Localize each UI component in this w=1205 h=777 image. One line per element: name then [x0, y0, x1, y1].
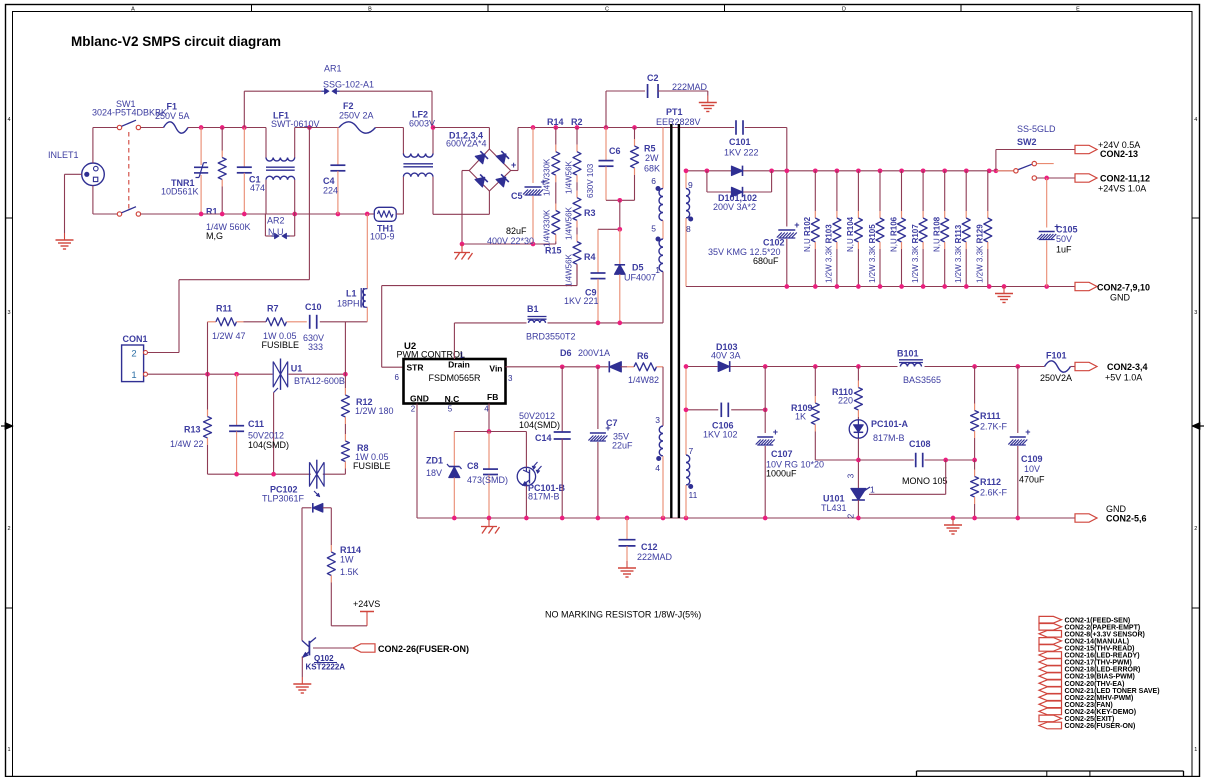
svg-text:CON2-17(THV-PWM): CON2-17(THV-PWM): [1065, 660, 1132, 667]
svg-text:N,U R108: N,U R108: [933, 216, 942, 252]
junction dot R111 R112: [972, 458, 977, 463]
svg-text:C5: C5: [511, 191, 523, 201]
resistor R6: [621, 351, 664, 385]
svg-text:222MAD: 222MAD: [637, 552, 673, 562]
resistor R2: [565, 117, 583, 194]
bridge rectifier D1,2,3,4: [446, 131, 516, 192]
svg-text:C6: C6: [609, 146, 621, 156]
connector CON2-5,6: [1075, 504, 1147, 524]
winding PT1 secondary 9-8: [686, 171, 693, 287]
triac U1: [273, 359, 345, 393]
resistor R13: [170, 374, 212, 474]
svg-text:6: 6: [395, 373, 400, 382]
svg-text:1/2W 3.3K R105: 1/2W 3.3K R105: [868, 224, 877, 283]
resistor R109: [791, 367, 858, 461]
svg-text:680uF: 680uF: [753, 256, 779, 266]
wire primary ground rail: [417, 517, 1075, 519]
fuse F101: [1040, 351, 1075, 384]
resistor R15 lower: [543, 193, 562, 256]
svg-text:3: 3: [7, 310, 10, 316]
svg-text:250V2A: 250V2A: [1040, 373, 1072, 383]
connector CON2-1(FEED-SEN): [1039, 616, 1130, 624]
svg-text:C107: C107: [771, 449, 793, 459]
svg-text:817M-B: 817M-B: [873, 433, 905, 443]
svg-text:40V 3A: 40V 3A: [711, 351, 741, 361]
svg-text:N,U: N,U: [268, 227, 284, 237]
svg-text:C14: C14: [535, 433, 552, 443]
connector CON2-17(THV-PWM): [1039, 659, 1132, 667]
svg-text:104(SMD): 104(SMD): [519, 420, 560, 430]
svg-text:U1: U1: [291, 364, 303, 374]
svg-text:2: 2: [1194, 526, 1197, 532]
svg-text:N,U R102: N,U R102: [803, 216, 812, 252]
junction dot LF2 right: [431, 125, 436, 130]
svg-text:Drain: Drain: [448, 360, 470, 370]
svg-text:CON2-18(LED-ERROR): CON2-18(LED-ERROR): [1065, 667, 1141, 674]
capacitor C11: [229, 374, 289, 474]
svg-text:CON2-21(LED TONER SAVE): CON2-21(LED TONER SAVE): [1065, 688, 1160, 695]
filter LF2: [403, 110, 435, 215]
wire R114 to 24VS: [331, 625, 367, 627]
svg-text:10D-9: 10D-9: [370, 232, 395, 242]
svg-text:200V 3A*2: 200V 3A*2: [713, 202, 756, 212]
svg-text:1/4W330K: 1/4W330K: [543, 209, 552, 247]
svg-text:CON2-14(MANUAL): CON2-14(MANUAL): [1065, 639, 1130, 646]
wire top rail to bridge: [433, 128, 489, 150]
svg-text:1KV 102: 1KV 102: [703, 430, 738, 440]
connector CON2-25(EXIT): [1039, 715, 1114, 723]
capacitor C2: [606, 73, 708, 128]
wire inlet top: [92, 128, 94, 164]
svg-text:200V1A: 200V1A: [578, 348, 610, 358]
svg-text:R1: R1: [206, 207, 218, 217]
resistor R113: [954, 171, 970, 287]
connector CON2-21(LED TONER SAVE): [1039, 687, 1160, 695]
svg-text:N,U R106: N,U R106: [889, 216, 898, 252]
winding PT1 aux 3-4: [655, 415, 663, 518]
svg-text:50V: 50V: [1056, 234, 1072, 244]
svg-text:1/2W 3.3K R103: 1/2W 3.3K R103: [825, 224, 834, 283]
svg-text:1.5K: 1.5K: [340, 567, 359, 577]
ground chassis at U2: [481, 518, 500, 534]
svg-text:CON2-24(KEY-DEMO): CON2-24(KEY-DEMO): [1065, 709, 1137, 716]
ground earth at C12: [618, 561, 636, 577]
svg-text:GND: GND: [410, 394, 429, 404]
svg-text:CON1: CON1: [123, 334, 148, 344]
junction dots 24V gnd rail: [784, 284, 1049, 289]
svg-text:N.C: N.C: [445, 394, 460, 404]
power +24VS: [353, 599, 380, 626]
svg-text:10V: 10V: [1024, 464, 1040, 474]
junction dots pin1 wire: [205, 372, 348, 377]
svg-text:SS-5GLD: SS-5GLD: [1017, 124, 1056, 134]
svg-text:UF4007: UF4007: [624, 273, 656, 283]
svg-text:PT1: PT1: [666, 107, 683, 117]
resistor R1: [206, 128, 251, 242]
opto triac PC102: [262, 460, 324, 504]
capacitor C106: [703, 403, 738, 440]
wire L1 node down: [344, 322, 346, 374]
transformer PT1: [656, 107, 701, 518]
svg-text:CON2-26(FUSER-ON): CON2-26(FUSER-ON): [1065, 723, 1136, 730]
svg-text:1KV 222: 1KV 222: [724, 148, 759, 158]
junction dots 24V rail: [684, 168, 999, 173]
fuse F1: [141, 102, 190, 134]
wire Q102 collector: [309, 642, 353, 648]
svg-text:104(SMD): 104(SMD): [248, 440, 289, 450]
svg-text:1K: 1K: [795, 412, 806, 422]
connector CON2-26: [353, 644, 469, 654]
svg-text:R5: R5: [644, 144, 656, 154]
svg-text:1/4W56K: 1/4W56K: [565, 160, 574, 194]
note no marking resistor: [545, 610, 701, 620]
svg-text:474: 474: [250, 183, 265, 193]
svg-text:4: 4: [7, 117, 10, 123]
winding PT1 primary 6-5: [651, 128, 663, 221]
ground earth at C2: [699, 96, 717, 112]
ic U2 FSDM0565R: [395, 341, 513, 414]
junction dots 5V rail: [684, 364, 1021, 369]
connector CON2-22(MHV-PWM): [1039, 694, 1133, 702]
svg-text:CON2-11,12: CON2-11,12: [1100, 174, 1150, 184]
switch SW1: [92, 99, 167, 216]
junction dots negative rail: [460, 242, 536, 247]
wire CON2-13 feed: [996, 150, 1075, 171]
winding PT1 secondary 7-11: [686, 367, 698, 519]
arrester AR2: [265, 214, 294, 239]
connector CON2-23(FAN): [1039, 701, 1113, 709]
zener ZD1: [426, 432, 462, 519]
svg-text:STR: STR: [407, 363, 424, 373]
junction dots B1 line: [596, 321, 623, 326]
svg-text:82uF: 82uF: [506, 226, 527, 236]
resistor R107: [911, 171, 927, 287]
svg-text:SSG-102-A1: SSG-102-A1: [323, 80, 374, 90]
wire inlet to ground: [65, 174, 82, 233]
svg-text:TLP3061F: TLP3061F: [262, 494, 305, 504]
connector CON2-18(LED-ERROR): [1039, 666, 1140, 674]
svg-text:+: +: [511, 160, 516, 170]
svg-text:AR2: AR2: [267, 216, 285, 226]
svg-text:2: 2: [131, 348, 136, 359]
svg-text:BTA12-600B: BTA12-600B: [294, 376, 345, 386]
connector CON2-26(FUSER-ON): [1039, 722, 1135, 730]
svg-text:4: 4: [1194, 117, 1197, 123]
varistor TNR1: [161, 128, 208, 215]
svg-text:U101: U101: [823, 494, 845, 504]
svg-text:473(SMD): 473(SMD): [467, 475, 508, 485]
svg-text:68K: 68K: [644, 164, 660, 174]
bead B101: [897, 349, 941, 386]
capacitor C105: [1037, 178, 1077, 287]
svg-text:222MAD: 222MAD: [672, 82, 708, 92]
svg-text:CON2-15(THV-READ): CON2-15(THV-READ): [1065, 646, 1135, 653]
wire led left to Q102: [301, 508, 303, 641]
wire feedback node: [856, 438, 861, 488]
svg-text:+: +: [1025, 427, 1030, 437]
capacitor C8: [467, 432, 508, 519]
svg-text:2: 2: [846, 513, 855, 518]
svg-text:1/4W56K: 1/4W56K: [565, 253, 574, 287]
wire inlet bottom: [92, 186, 94, 214]
svg-text:R11: R11: [216, 304, 232, 314]
diode D102: [707, 171, 772, 197]
svg-text:R111: R111: [980, 411, 1001, 421]
svg-text:6: 6: [651, 176, 656, 186]
diode D103: [711, 342, 741, 372]
svg-text:CON2-23(FAN): CON2-23(FAN): [1065, 702, 1113, 709]
capacitor C7: [588, 367, 633, 518]
wire PC101-B leads: [525, 432, 527, 519]
svg-text:1: 1: [870, 485, 875, 495]
wire snubber node: [598, 200, 622, 231]
svg-text:630V 103: 630V 103: [586, 163, 595, 198]
svg-text:F2: F2: [343, 101, 354, 111]
wire CON1 pin1 node: [148, 373, 346, 375]
capacitor C5: [487, 128, 546, 247]
junction dots bottom rail left: [199, 212, 370, 217]
svg-text:C108: C108: [909, 439, 931, 449]
svg-text:AR1: AR1: [324, 64, 342, 74]
svg-text:1: 1: [655, 265, 660, 275]
wire U1 gate: [273, 393, 275, 475]
svg-text:817M-B: 817M-B: [528, 492, 560, 502]
svg-text:L1: L1: [346, 289, 357, 299]
svg-text:250V 2A: 250V 2A: [339, 111, 374, 121]
svg-text:R2: R2: [571, 117, 583, 127]
svg-text:R13: R13: [184, 425, 201, 435]
svg-text:1/4W 22: 1/4W 22: [170, 439, 204, 449]
svg-text:CON2-3,4: CON2-3,4: [1107, 362, 1148, 372]
junction dot C105 tap: [1044, 176, 1049, 181]
svg-text:600V2A*4: 600V2A*4: [446, 139, 487, 149]
connector CON2-13: [1075, 140, 1140, 159]
switch SW2: [996, 124, 1075, 180]
svg-text:1W: 1W: [340, 555, 354, 565]
junction dots HV rail: [531, 125, 637, 130]
svg-text:E: E: [1076, 7, 1080, 13]
svg-text:1: 1: [131, 370, 136, 381]
svg-text:7: 7: [689, 446, 694, 456]
svg-text:R14: R14: [547, 117, 564, 127]
svg-text:R114: R114: [340, 545, 361, 555]
svg-text:ZD1: ZD1: [426, 456, 443, 466]
svg-text:+: +: [794, 220, 799, 230]
capacitor C12: [619, 518, 673, 562]
svg-text:CON2-2(PAPER-EMPT): CON2-2(PAPER-EMPT): [1065, 624, 1141, 631]
capacitor C14: [519, 367, 571, 518]
svg-text:TL431: TL431: [821, 503, 847, 513]
capacitor C10: [303, 302, 367, 352]
connector CON2-14(MANUAL): [1039, 638, 1129, 646]
svg-text:C4: C4: [323, 176, 335, 186]
svg-text:2W: 2W: [645, 153, 659, 163]
connector CON2-11,12: [1075, 174, 1150, 194]
wire U2 gnd pin: [416, 404, 418, 519]
svg-text:3: 3: [655, 415, 660, 425]
svg-text:R112: R112: [980, 477, 1001, 487]
svg-text:1KV 221: 1KV 221: [564, 296, 599, 306]
svg-text:C11: C11: [248, 419, 264, 429]
diode D5: [615, 229, 657, 323]
wire top rail to LF2: [376, 127, 404, 129]
resistor R104: [846, 171, 862, 287]
resistor R106: [889, 171, 905, 287]
resistor R105: [868, 171, 884, 287]
resistor R12: [341, 374, 393, 429]
svg-text:+24VS: +24VS: [353, 599, 380, 609]
wire 24V rail: [686, 170, 1015, 172]
svg-text:R7: R7: [267, 304, 279, 314]
junction dots C106 line: [684, 407, 768, 412]
svg-text:1/4W56K: 1/4W56K: [565, 206, 574, 240]
svg-text:D: D: [842, 7, 846, 13]
svg-text:FUSIBLE: FUSIBLE: [353, 461, 391, 471]
svg-text:1/2W 3.3K R107: 1/2W 3.3K R107: [911, 224, 920, 283]
connector CON2-20(THV-EA): [1039, 680, 1124, 688]
svg-text:1uF: 1uF: [1056, 245, 1072, 255]
svg-text:333: 333: [308, 342, 323, 352]
svg-text:B1: B1: [527, 304, 539, 314]
svg-text:C101: C101: [729, 137, 751, 147]
svg-text:B: B: [368, 7, 372, 13]
led PC102: [302, 503, 331, 513]
svg-text:11: 11: [689, 490, 698, 500]
resistor R108: [933, 171, 949, 287]
capacitor C101: [724, 120, 759, 157]
diode D101: [713, 166, 757, 212]
svg-text:PC101-A: PC101-A: [871, 419, 909, 429]
wire AC bottom to bridge: [433, 191, 489, 214]
resistor R7: [262, 304, 307, 351]
svg-text:1: 1: [7, 747, 10, 753]
svg-text:F101: F101: [1046, 351, 1067, 361]
opto transistor PC101-B: [517, 462, 565, 502]
svg-text:1/4W330K: 1/4W330K: [543, 158, 552, 196]
svg-text:1/4W82: 1/4W82: [628, 375, 659, 385]
capacitor C1: [237, 128, 265, 215]
svg-text:18PHI: 18PHI: [337, 299, 362, 309]
svg-text:18V: 18V: [426, 468, 442, 478]
svg-text:CON2-20(THV-EA): CON2-20(THV-EA): [1065, 681, 1125, 688]
capacitor C9: [564, 229, 606, 323]
svg-text:220: 220: [838, 396, 853, 406]
svg-text:1/2W 180: 1/2W 180: [355, 406, 394, 416]
svg-text:M,G: M,G: [206, 231, 223, 241]
svg-text:CON2-7,9,10: CON2-7,9,10: [1097, 283, 1150, 293]
wire R6 to PT1 pin3: [662, 367, 664, 426]
wire top rail mid: [295, 127, 339, 129]
resistor R111: [971, 367, 1008, 461]
svg-text:D6: D6: [560, 348, 572, 358]
connector CON2-16(LED-READY): [1039, 652, 1140, 660]
svg-text:1: 1: [460, 351, 465, 360]
resistor R112: [971, 460, 1008, 518]
wire C106 line: [686, 409, 765, 411]
svg-text:C105: C105: [1056, 225, 1078, 235]
connector CON2-19(BIAS-PWM): [1039, 673, 1135, 681]
shunt U101 TL431: [821, 473, 875, 518]
svg-text:CON2-13: CON2-13: [1100, 149, 1138, 159]
svg-text:GND: GND: [1110, 293, 1131, 303]
svg-text:A: A: [131, 7, 135, 13]
resistor R4: [565, 230, 596, 287]
svg-text:3: 3: [508, 374, 513, 383]
title text: [71, 34, 281, 49]
svg-text:CON2-19(BIAS-PWM): CON2-19(BIAS-PWM): [1065, 674, 1135, 681]
connector INLET1: [48, 150, 104, 186]
resistor R110: [832, 367, 862, 421]
resistor R114: [327, 508, 361, 626]
svg-text:Mblanc-V2 SMPS circuit diagram: Mblanc-V2 SMPS circuit diagram: [71, 34, 281, 49]
capacitor C107: [756, 367, 824, 519]
capacitor C108 line: [858, 458, 974, 463]
wire U2 vin: [506, 366, 609, 368]
svg-text:50V2012: 50V2012: [248, 431, 284, 441]
junction dots vin wire: [560, 364, 600, 369]
wire HV DC rail: [518, 127, 787, 129]
capacitor C109: [1008, 367, 1045, 519]
svg-text:BAS3565: BAS3565: [903, 375, 941, 385]
svg-text:4: 4: [655, 463, 660, 473]
wire C6 R5 bottom: [606, 198, 635, 203]
svg-text:C109: C109: [1021, 454, 1043, 464]
wire 24V gnd rail: [686, 286, 1075, 288]
svg-text:C: C: [605, 7, 609, 13]
wire R4 to STR: [382, 264, 577, 367]
svg-text:9: 9: [688, 180, 693, 190]
capacitor C6: [586, 128, 621, 201]
opto led PC101-A: [849, 419, 908, 443]
svg-text:INLET1: INLET1: [48, 150, 79, 160]
wire bridge negative: [462, 171, 556, 245]
svg-text:FB: FB: [487, 392, 498, 402]
svg-text:400V 22*30: 400V 22*30: [487, 236, 534, 246]
svg-text:250V 5A: 250V 5A: [155, 111, 190, 121]
svg-text:MONO 105: MONO 105: [902, 476, 948, 486]
arrester AR1: [244, 64, 432, 128]
ground earth at 24V gnd: [995, 287, 1013, 303]
svg-text:1: 1: [1194, 747, 1197, 753]
junction dots primary ground: [452, 516, 688, 521]
resistor R8: [341, 429, 390, 474]
svg-text:8: 8: [686, 224, 691, 234]
svg-text:D5: D5: [632, 263, 644, 273]
resistor R3: [565, 186, 596, 240]
svg-text:3: 3: [846, 473, 855, 478]
svg-text:C8: C8: [467, 461, 479, 471]
svg-text:2.6K-F: 2.6K-F: [980, 488, 1008, 498]
junction dots gate wire: [234, 472, 276, 477]
svg-text:2.7K-F: 2.7K-F: [980, 422, 1008, 432]
svg-text:C12: C12: [641, 542, 658, 552]
svg-text:1/2W 47: 1/2W 47: [212, 331, 246, 341]
svg-text:FSDM0565R: FSDM0565R: [428, 373, 481, 383]
connector CON2-3,4: [1075, 362, 1148, 383]
wire U2 drain to B1: [454, 272, 663, 360]
resistor R102: [803, 171, 819, 287]
wire bridge positive: [511, 128, 518, 171]
connector CON2-7,9,10: [1075, 282, 1150, 302]
svg-text:KST2222A: KST2222A: [306, 663, 346, 672]
svg-text:C7: C7: [606, 418, 618, 428]
svg-text:CON2-26(FUSER-ON): CON2-26(FUSER-ON): [378, 644, 469, 654]
svg-text:GND: GND: [1106, 504, 1127, 514]
svg-text:CON2-25(EXIT): CON2-25(EXIT): [1065, 716, 1115, 723]
svg-text:R3: R3: [584, 208, 596, 218]
svg-text:3: 3: [1194, 310, 1197, 316]
svg-text:CON2-16(LED-READY): CON2-16(LED-READY): [1065, 653, 1140, 660]
